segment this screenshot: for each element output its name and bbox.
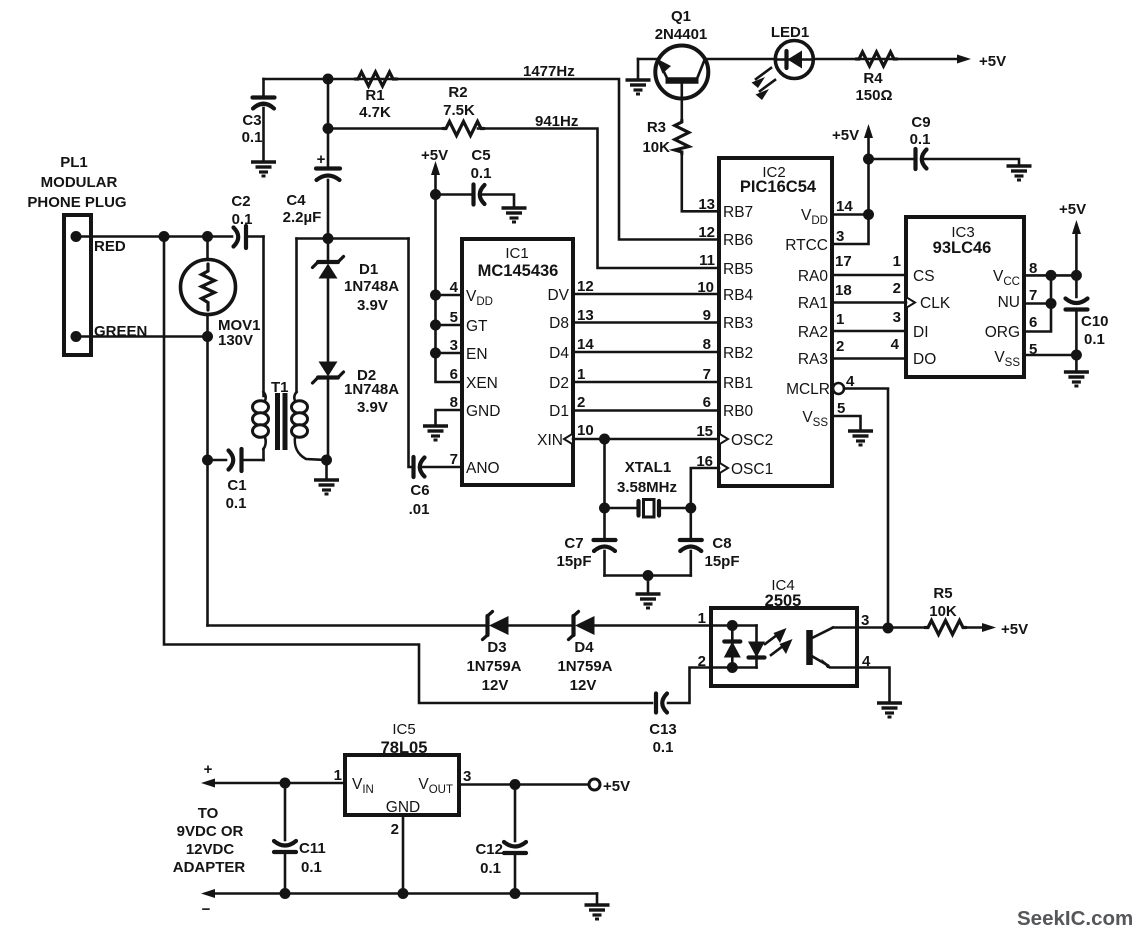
svg-text:0.1: 0.1	[653, 739, 674, 756]
svg-text:PL1: PL1	[60, 154, 88, 171]
junction on RED wire at MOV1 top	[202, 231, 213, 242]
svg-text:0.1: 0.1	[232, 211, 253, 228]
svg-text:8: 8	[703, 336, 711, 353]
svg-text:D3: D3	[487, 639, 506, 656]
svg-text:+5V: +5V	[603, 778, 630, 795]
svg-text:0.1: 0.1	[226, 495, 247, 512]
power +5V arrow above VDD	[832, 124, 873, 244]
svg-text:TO: TO	[198, 805, 219, 822]
transformer T1	[253, 379, 308, 450]
svg-text:R4: R4	[863, 70, 883, 87]
capacitor C13	[649, 694, 677, 757]
terminal +5V output circle	[589, 779, 600, 790]
svg-text:4: 4	[450, 279, 459, 296]
svg-text:Q1: Q1	[671, 8, 691, 25]
svg-text:IC1: IC1	[505, 245, 528, 262]
svg-text:GND: GND	[466, 403, 500, 420]
svg-text:C6: C6	[410, 482, 429, 499]
ground below XTAL caps	[636, 594, 661, 608]
zener diode D3	[466, 612, 521, 695]
resistor R1	[355, 72, 397, 121]
svg-text:GND: GND	[386, 799, 420, 816]
resistor R2	[443, 84, 484, 136]
svg-text:C2: C2	[231, 193, 250, 210]
transistor Q1 2N4401	[655, 8, 709, 120]
wire bus XIN to OSC2	[573, 438, 719, 441]
wire IC3 VCC pin8 to +5V rail	[1024, 274, 1076, 277]
svg-text:14: 14	[836, 198, 853, 215]
IC4 pin numbers	[698, 610, 871, 670]
wire bus DV to RB4	[573, 293, 719, 296]
svg-text:12V: 12V	[482, 677, 509, 694]
svg-text:10K: 10K	[929, 603, 957, 620]
svg-text:+5V: +5V	[832, 127, 859, 144]
svg-text:+5V: +5V	[1059, 201, 1086, 218]
junction IC1 GT	[430, 320, 441, 331]
wire bus D8 to RB3	[573, 321, 719, 324]
capacitor C3	[242, 79, 275, 161]
svg-text:RB0: RB0	[723, 403, 754, 420]
svg-text:ORG: ORG	[985, 324, 1020, 341]
svg-text:RB2: RB2	[723, 345, 753, 362]
svg-text:3: 3	[450, 337, 458, 354]
svg-text:7.5K: 7.5K	[443, 102, 475, 119]
junction VSS/C10	[1071, 350, 1082, 361]
svg-text:3: 3	[463, 768, 471, 785]
svg-text:SeekIC.com: SeekIC.com	[1017, 907, 1133, 930]
svg-text:2505: 2505	[765, 592, 802, 610]
svg-text:RA0: RA0	[798, 268, 829, 285]
ground below T1/D2	[325, 460, 328, 479]
svg-text:D1: D1	[549, 403, 569, 420]
svg-text:6: 6	[1029, 314, 1037, 331]
junction +5V / C5 branch	[430, 189, 441, 200]
junction C1 left at MOV branch	[202, 455, 213, 466]
IC3 pin names left	[913, 268, 951, 368]
wire Q1 collector rail to +5V via LED1 and R4	[638, 58, 958, 61]
junction VCC/NU link	[1046, 270, 1057, 281]
svg-text:2: 2	[577, 394, 585, 411]
junction C12 top	[510, 779, 521, 790]
svg-text:15pF: 15pF	[704, 553, 739, 570]
svg-text:1: 1	[577, 366, 585, 383]
junction XTAL1 left	[599, 503, 610, 514]
svg-text:GT: GT	[466, 318, 488, 335]
IC3 pin names right	[985, 268, 1021, 369]
svg-text:RA3: RA3	[798, 351, 828, 368]
varistor MOV1	[181, 260, 261, 350]
wire VOUT to +5V terminal	[459, 783, 589, 786]
IC1 XIN input wedge	[564, 434, 573, 445]
svg-text:10: 10	[697, 279, 714, 296]
svg-text:C3: C3	[242, 112, 261, 129]
zener diode D4	[557, 612, 612, 695]
svg-text:RB1: RB1	[723, 375, 753, 392]
LED LED1	[771, 24, 813, 79]
wire VIN input with arrow	[207, 782, 345, 785]
ground below C9	[1007, 166, 1032, 180]
svg-text:+5V: +5V	[421, 147, 448, 164]
junction top rail / C4	[323, 74, 334, 85]
svg-text:3.58MHz: 3.58MHz	[617, 479, 677, 496]
svg-text:7: 7	[450, 451, 458, 468]
svg-text:+5V: +5V	[979, 53, 1006, 70]
svg-text:9: 9	[703, 307, 711, 324]
svg-text:2.2µF: 2.2µF	[283, 209, 322, 226]
svg-text:+: +	[317, 151, 326, 168]
PL1 pin RED terminal	[71, 231, 82, 242]
wire IC3 NU pin7 link	[1024, 275, 1051, 303]
junction GREEN at MOV1 bottom	[202, 331, 213, 342]
zener diode D1	[313, 239, 400, 364]
svg-text:18: 18	[835, 282, 852, 299]
svg-text:1477Hz: 1477Hz	[523, 63, 575, 80]
svg-text:3.9V: 3.9V	[357, 297, 388, 314]
svg-text:RTCC: RTCC	[785, 237, 828, 254]
svg-text:2: 2	[893, 280, 901, 297]
ground at bottom rail	[596, 894, 599, 905]
wire IC3 ORG pin6 link to NU	[1024, 304, 1051, 332]
resistor R5	[925, 585, 966, 635]
svg-text:4: 4	[891, 336, 900, 353]
svg-text:+: +	[204, 761, 213, 778]
svg-text:RA2: RA2	[798, 324, 828, 341]
IC3 pin numbers left	[891, 253, 901, 353]
regulator IC5 78L05 box	[345, 721, 459, 816]
svg-text:C9: C9	[911, 114, 930, 131]
IC2 pin numbers right	[835, 198, 855, 417]
svg-text:OSC1: OSC1	[731, 461, 773, 478]
svg-text:8: 8	[450, 394, 458, 411]
svg-text:3: 3	[836, 228, 844, 245]
wire T1 secondary top to node row 238	[295, 239, 298, 393]
IC4 emission arrows	[765, 628, 793, 655]
wire top 1477Hz rail	[264, 79, 720, 240]
svg-text:R5: R5	[933, 585, 952, 602]
svg-text:MODULAR: MODULAR	[41, 174, 118, 191]
svg-text:1N759A: 1N759A	[557, 658, 612, 675]
svg-text:2: 2	[391, 821, 399, 838]
capacitor C11	[274, 783, 326, 894]
svg-text:C5: C5	[471, 147, 490, 164]
svg-text:CS: CS	[913, 268, 935, 285]
wire IC5 GND pin2 to rail	[402, 815, 405, 894]
IC3 pin numbers right	[1029, 260, 1037, 358]
wire bus D2 to RB1	[573, 381, 719, 384]
capacitor C12	[475, 785, 526, 894]
svg-text:1N748A: 1N748A	[344, 278, 399, 295]
svg-text:DV: DV	[547, 287, 569, 304]
svg-text:R2: R2	[448, 84, 467, 101]
svg-text:10K: 10K	[642, 139, 670, 156]
svg-text:RB3: RB3	[723, 315, 753, 332]
wire RA0 to CS	[832, 274, 906, 277]
svg-text:PHONE PLUG: PHONE PLUG	[27, 194, 126, 211]
wire bus D4 to RB2	[573, 351, 719, 354]
svg-text:C13: C13	[649, 721, 677, 738]
wire RA1 to CLK	[832, 301, 906, 304]
junction C11 top	[280, 778, 291, 789]
resistor R3	[642, 119, 688, 156]
capacitor C10	[1066, 299, 1109, 356]
capacitor C7	[556, 508, 615, 576]
svg-text:0.1: 0.1	[910, 131, 931, 148]
wire R3 to IC2 RB7	[682, 154, 719, 211]
wire C7/C8 common to ground	[605, 574, 691, 577]
svg-text:PIC16C54: PIC16C54	[740, 178, 817, 196]
svg-text:2N4401: 2N4401	[655, 26, 708, 43]
svg-text:12: 12	[698, 224, 715, 241]
wire +5V rail down to IC1 pins	[436, 195, 463, 383]
svg-text:RED: RED	[94, 238, 126, 255]
wire bottom return rail with arrow	[207, 892, 597, 895]
svg-text:9VDC OR: 9VDC OR	[177, 823, 244, 840]
IC2 MCLR bubble pin4	[833, 383, 844, 394]
wire IC2 VDD pin14 to +5V rail	[832, 213, 869, 216]
svg-text:12VDC: 12VDC	[186, 841, 235, 858]
svg-text:0.1: 0.1	[1084, 331, 1105, 348]
svg-text:7: 7	[703, 366, 711, 383]
adapter note	[173, 805, 246, 876]
svg-text:941Hz: 941Hz	[535, 113, 578, 130]
svg-text:R3: R3	[647, 119, 666, 136]
svg-text:D1: D1	[359, 261, 378, 278]
svg-text:C10: C10	[1081, 313, 1109, 330]
svg-text:15: 15	[696, 423, 713, 440]
power +5V arrow right of R4	[957, 53, 1006, 70]
IC2 pin names left	[723, 204, 773, 478]
junction NU	[1046, 298, 1057, 309]
svg-text:DO: DO	[913, 351, 936, 368]
capacitor C9	[869, 114, 1020, 169]
svg-text:ANO: ANO	[466, 460, 500, 477]
ground at IC2 VSS	[848, 431, 873, 445]
svg-text:10: 10	[577, 422, 594, 439]
svg-text:130V: 130V	[218, 332, 253, 349]
svg-text:OSC2: OSC2	[731, 432, 773, 449]
IC1 pin numbers right	[577, 278, 594, 439]
svg-text:1: 1	[698, 610, 706, 627]
junction T1 secondary bottom / D2 / ground	[321, 455, 332, 466]
ground at IC1 GND	[423, 426, 448, 440]
wire C2 to T1 primary top	[262, 237, 265, 397]
svg-text:1N748A: 1N748A	[344, 381, 399, 398]
capacitor C8	[680, 508, 740, 576]
svg-text:LED1: LED1	[771, 24, 809, 41]
svg-text:7: 7	[1029, 287, 1037, 304]
svg-text:MCLR: MCLR	[786, 381, 830, 398]
IC4 internal LED pair	[711, 620, 765, 673]
svg-text:2: 2	[836, 338, 844, 355]
junction pin3/MCLR	[883, 623, 894, 634]
wire node row 238 from T1 to C6 branch	[297, 237, 409, 240]
wire RED from PL1 to C2	[76, 235, 232, 238]
svg-text:C8: C8	[712, 535, 731, 552]
junction 941 rail / C4	[323, 123, 334, 134]
svg-text:XIN: XIN	[537, 432, 563, 449]
wire IC4 pin3 to R5	[857, 626, 925, 629]
svg-text:RB7: RB7	[723, 204, 753, 221]
junction C12 bottom	[510, 888, 521, 899]
svg-text:150Ω: 150Ω	[855, 87, 892, 104]
power +5V arrow right of R5	[966, 621, 1028, 638]
svg-text:C11: C11	[299, 840, 326, 857]
crystal XTAL1 3.58MHz	[605, 459, 691, 517]
ground below C10	[1064, 372, 1089, 386]
microcontroller IC2 PIC16C54 box	[719, 158, 832, 486]
junction IC1 VDD	[430, 290, 441, 301]
wire GREEN from PL1 to MOV1 bottom	[76, 335, 208, 338]
IC1 pin names right	[537, 287, 569, 449]
svg-text:RB5: RB5	[723, 261, 753, 278]
junction C7/C8 ground node	[643, 570, 654, 581]
svg-text:6: 6	[450, 366, 458, 383]
svg-text:3: 3	[893, 309, 901, 326]
IC2 OSC2 input wedge	[719, 434, 728, 445]
svg-text:D2: D2	[549, 375, 569, 392]
svg-text:14: 14	[577, 336, 594, 353]
power +5V arrow right of IC3	[1059, 201, 1086, 297]
zener diode D2	[313, 362, 400, 461]
IC2 OSC1 input wedge	[719, 463, 728, 474]
svg-text:0.1: 0.1	[301, 859, 322, 876]
svg-text:MC145436: MC145436	[478, 262, 559, 280]
wire 941Hz rail	[328, 127, 443, 130]
IC1 pin numbers left	[450, 279, 459, 468]
wire Q1 emitter to ground	[637, 59, 640, 79]
junction XTAL1 right	[685, 503, 696, 514]
ground below C5	[502, 208, 527, 222]
wire tip/ring sense to IC4 pin1 through D3 D4	[208, 624, 486, 627]
svg-text:12: 12	[577, 278, 594, 295]
svg-text:RA1: RA1	[798, 295, 828, 312]
svg-text:17: 17	[835, 253, 852, 270]
svg-text:11: 11	[699, 252, 715, 269]
connector PL1 modular phone plug	[27, 154, 126, 355]
svg-text:0.1: 0.1	[480, 860, 501, 877]
svg-text:5: 5	[450, 309, 458, 326]
wire bus D1 to RB0	[573, 409, 719, 412]
svg-text:78L05: 78L05	[381, 739, 428, 757]
svg-text:RB4: RB4	[723, 287, 754, 304]
wire MCLR to IC4 pin3 node	[844, 389, 888, 629]
svg-text:D4: D4	[574, 639, 594, 656]
svg-text:ADAPTER: ADAPTER	[173, 859, 246, 876]
svg-text:1: 1	[334, 767, 342, 784]
svg-text:C7: C7	[564, 535, 583, 552]
svg-text:+5V: +5V	[1001, 621, 1028, 638]
junction C4 bottom / D1 top / row 238	[323, 233, 334, 244]
svg-text:2: 2	[698, 653, 706, 670]
junction IC1 EN	[430, 348, 441, 359]
svg-text:1N759A: 1N759A	[466, 658, 521, 675]
wire XIN branch down to XTAL1 left	[603, 439, 606, 508]
memory IC3 93LC46 box	[906, 217, 1024, 377]
svg-text:93LC46: 93LC46	[933, 239, 992, 257]
svg-text:C4: C4	[286, 192, 306, 209]
PL1 pin GREEN terminal	[71, 331, 82, 342]
svg-text:NU: NU	[998, 294, 1020, 311]
optocoupler IC4 2505 box	[711, 577, 857, 686]
capacitor C2	[231, 193, 263, 248]
svg-text:12V: 12V	[570, 677, 597, 694]
capacitor C5	[436, 147, 515, 207]
IC2 pin numbers left	[696, 196, 715, 470]
power +5V arrow above IC1	[421, 147, 448, 195]
junction +5V / C9	[863, 154, 874, 165]
wire IC2 VSS pin5 to ground	[832, 416, 861, 430]
junction XIN / XTAL branch	[599, 434, 610, 445]
svg-text:C12: C12	[475, 841, 503, 858]
wire IC1 GND pin to ground	[436, 410, 463, 425]
wire IC4 pin4 to ground	[857, 668, 890, 703]
svg-text:.01: .01	[409, 501, 430, 518]
wire T1 primary bottom to C1	[262, 449, 265, 460]
capacitor C4 polarized	[283, 79, 340, 239]
ground at IC4 pin4	[877, 703, 902, 717]
wire RA2 to DI	[832, 330, 906, 333]
svg-text:XTAL1: XTAL1	[625, 459, 671, 476]
svg-text:D4: D4	[549, 345, 569, 362]
junction C11 bottom	[280, 888, 291, 899]
svg-text:RB6: RB6	[723, 232, 753, 249]
IC2 pin names right	[785, 207, 830, 429]
svg-text:D8: D8	[549, 315, 569, 332]
svg-text:IC5: IC5	[392, 721, 415, 738]
svg-text:C1: C1	[227, 477, 246, 494]
op-amp IC1 MC145436 box	[462, 239, 573, 485]
wire RED node to C13 to IC4 pin2	[164, 237, 652, 704]
wire OSC1 branch down to XTAL1 right	[691, 468, 719, 508]
svg-text:EN: EN	[466, 346, 488, 363]
IC1 pin names left	[466, 288, 500, 477]
ground below C3	[251, 162, 276, 176]
svg-text:DI: DI	[913, 324, 929, 341]
wire MOV1 branch vertical (RED node down to C1 node and D3 wire)	[206, 237, 209, 261]
capacitor C6	[409, 239, 463, 519]
svg-text:5: 5	[837, 400, 845, 417]
svg-text:4.7K: 4.7K	[359, 104, 391, 121]
IC5 pin numbers	[334, 767, 472, 838]
ground at Q1 emitter	[626, 80, 651, 94]
svg-text:1: 1	[893, 253, 901, 270]
svg-text:3.9V: 3.9V	[357, 399, 388, 416]
resistor R4	[855, 52, 897, 104]
svg-text:6: 6	[703, 394, 711, 411]
junction VCC/+5V rail	[1071, 270, 1082, 281]
svg-text:15pF: 15pF	[556, 553, 591, 570]
IC3 CLK input wedge	[906, 297, 915, 308]
svg-text:1: 1	[836, 311, 844, 328]
junction GND rail	[398, 888, 409, 899]
wire IC3 VSS pin5 to ground	[1024, 355, 1076, 371]
LED1 emission arrows	[752, 68, 776, 100]
wire RA3 to DO	[832, 357, 906, 360]
wire T1 secondary bottom to ground node	[295, 437, 326, 460]
svg-text:0.1: 0.1	[471, 165, 492, 182]
svg-text:R1: R1	[365, 87, 384, 104]
svg-text:CLK: CLK	[920, 295, 951, 312]
capacitor C1	[208, 449, 264, 512]
junction VDD pin14	[863, 209, 874, 220]
svg-text:XEN: XEN	[466, 375, 498, 392]
junction on RED wire at x164	[159, 231, 170, 242]
svg-text:13: 13	[698, 196, 715, 213]
svg-text:−: −	[202, 901, 211, 918]
svg-text:0.1: 0.1	[242, 129, 263, 146]
IC4 phototransistor	[810, 628, 858, 669]
